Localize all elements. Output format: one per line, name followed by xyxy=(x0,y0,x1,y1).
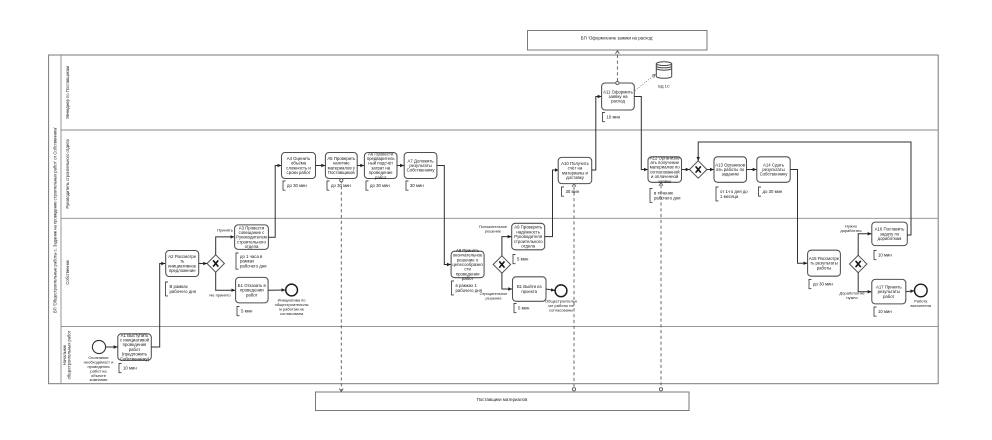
svg-text:А5 Проверитьналичиематериалов: А5 Проверитьналичиематериалов уПоставщик… xyxy=(327,156,356,175)
svg-text:5 мин: 5 мин xyxy=(518,306,530,311)
svg-text:Осознаниенеобходимост ипроведе: Осознаниенеобходимост ипроведенияработ н… xyxy=(84,355,114,382)
svg-text:до 30 мин: до 30 мин xyxy=(813,282,833,287)
svg-text:30 мин: 30 мин xyxy=(410,183,424,188)
svg-text:Принять: Принять xyxy=(217,228,233,233)
svg-text:5 мин: 5 мин xyxy=(517,257,529,262)
svg-text:Положительноерешение: Положительноерешение xyxy=(479,225,507,233)
svg-text:А7 ДоложитьрезультатыСобственн: А7 ДоложитьрезультатыСобственнику xyxy=(407,158,436,172)
svg-text:БД 1С: БД 1С xyxy=(658,84,670,89)
svg-text:10 мин: 10 мин xyxy=(878,253,892,258)
svg-text:Собственник: Собственник xyxy=(65,260,70,285)
svg-text:от 1-го дня до1 месяца: от 1-го дня до1 месяца xyxy=(720,189,748,199)
svg-text:Отрицательноерешение: Отрицательноерешение xyxy=(480,292,508,300)
svg-text:А2 Рассмотретьинициативноепред: А2 Рассмотретьинициативноепредложение xyxy=(168,254,197,273)
svg-text:10 мин: 10 мин xyxy=(123,366,137,371)
svg-text:до 30 мин: до 30 мин xyxy=(763,189,783,194)
svg-text:БП 'Общестроительные работы с.: БП 'Общестроительные работы с. Задание н… xyxy=(53,127,58,313)
svg-text:Нужнодоработать: Нужнодоработать xyxy=(840,224,861,233)
svg-text:Работавыполнена: Работавыполнена xyxy=(911,299,932,308)
svg-text:5 мин: 5 мин xyxy=(241,309,253,314)
svg-text:в рамках 1рабочего дня: в рамках 1рабочего дня xyxy=(456,283,483,293)
svg-text:А1 Выступитьс инициативойпрове: А1 Выступитьс инициативойпроведенияработ… xyxy=(120,333,150,362)
svg-text:общестроительных работ: общестроительных работ xyxy=(67,330,72,379)
svg-text:10 мин: 10 мин xyxy=(607,115,621,120)
svg-text:Не принято: Не принято xyxy=(209,293,231,298)
svg-text:в течениерабочего дня: в течениерабочего дня xyxy=(654,191,681,201)
svg-text:Инициатива пообщестроительным: Инициатива пообщестроительным работам не… xyxy=(275,298,309,316)
svg-text:30 мин: 30 мин xyxy=(566,189,580,194)
svg-text:до 1 часа врамкахрабочего дня: до 1 часа врамкахрабочего дня xyxy=(240,254,267,268)
svg-text:А4 Оценитьобъёмасложность исро: А4 Оценитьобъёмасложность исроки работ xyxy=(286,156,311,175)
svg-text:В рамкахрабочего дня: В рамкахрабочего дня xyxy=(170,284,197,294)
svg-text:А8 Принятьокончательноерешение: А8 Принятьокончательноерешение оцелесооб… xyxy=(452,248,483,281)
svg-text:Руководитель строительного отд: Руководитель строительного отдела xyxy=(65,139,70,209)
svg-text:Общестроительные работы несогл: Общестроительные работы несогласованы xyxy=(545,299,577,313)
svg-text:до 30 мин: до 30 мин xyxy=(370,183,390,188)
svg-text:А14 СдатьрезультатыСобственник: А14 СдатьрезультатыСобственнику xyxy=(760,162,789,176)
svg-text:БП 'Оформление заявки на расхо: БП 'Оформление заявки на расход' xyxy=(581,36,654,41)
svg-text:до 30 мин: до 30 мин xyxy=(287,183,307,188)
svg-text:10 мин: 10 мин xyxy=(878,309,892,314)
svg-text:Поставщики материалов: Поставщики материалов xyxy=(477,397,528,402)
svg-text:Менеджер по Поставщикам: Менеджер по Поставщикам xyxy=(65,66,70,119)
